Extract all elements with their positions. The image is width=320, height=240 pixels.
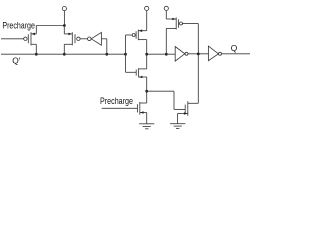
wire P4 drain down to node X [165,28,167,54]
node U1 input on Q' [105,53,108,56]
node supply rail junction [63,24,66,27]
wire supply down to P2 source [63,26,65,34]
wire P2 drain down to Q' [63,44,65,54]
transistor N1 source lead (bottom) [139,76,147,78]
transistor P4 (keeper PMOS) source lead (top) [166,18,176,20]
svg-text:Q: Q [231,43,238,53]
transistor N2 channel bar [139,102,141,115]
transistor N1 channel bar [138,68,140,77]
svg-text:Q′: Q′ [12,56,21,66]
wire supply B stem to P3 [146,11,148,31]
inverter U3 output bubble [219,52,222,55]
wire supply C stem [165,11,167,20]
power supply terminal C [164,6,168,10]
node Y [197,53,200,56]
svg-text:Precharge: Precharge [2,21,35,31]
transistor N2 source arrow [140,111,143,114]
transistor P1 channel bar [30,32,32,45]
transistor P2 gate bar [74,34,76,43]
node P4 drain on X [165,53,168,56]
inverter U1 triangle [91,32,101,45]
wire P1 drain down to Q' [35,44,37,54]
wire supply rail [36,25,64,27]
inverter U1 (left-facing) output bubble [88,37,92,41]
wire N2 drain up to node M [146,91,148,103]
transistor P4 source arrow [172,18,176,21]
transistor N2 source lead (bottom) [140,112,147,114]
wire Precharge input to P1 gate [1,38,24,40]
transistor N3 channel bar [187,101,189,116]
wire Precharge to N2 gate [102,107,138,109]
transistor P2 (keeper PMOS) source lead (top) [64,33,72,35]
wire P3 gate horizontal [126,34,133,36]
wire node M to N3 gate [147,90,174,92]
wire P2 gate to inverter output [80,38,87,40]
wire Q' horizontal line [1,53,126,55]
wire U1 input down to Q' [106,39,108,54]
wire P1 source up to rail [35,26,37,34]
transistor P3 channel bar [137,30,139,41]
inverter U2 triangle [175,47,185,62]
ground (under N3) [170,123,185,125]
transistor P3 source lead (top) [138,30,146,32]
wire Q' up to P3 gate [125,35,127,54]
power supply terminal B [145,6,149,10]
transistor P1 gate bar [27,34,29,43]
transistor P1 (precharge PMOS) gate bubble [24,37,27,40]
transistor N3 source arrow [184,112,188,115]
inverter U2 output bubble [185,52,188,55]
wire N3 source down to ground [177,114,179,124]
transistor N3 drain lead (top) [188,102,199,104]
transistor P4 drain lead (bottom) [166,27,176,29]
transistor P2 channel bar [71,32,73,45]
inverter U3 triangle [208,46,218,61]
transistor P4 gate bar [178,19,180,27]
transistor P4 channel bar [175,17,177,29]
wire Q output [222,53,251,55]
svg-text:Precharge: Precharge [100,96,133,106]
wire P3 drain down to node X [146,40,148,55]
wire N3 drain up to node Y [197,54,199,103]
node X left junction [145,53,148,56]
transistor P1 source arrow [32,33,36,36]
transistor P2 source arrow [68,33,72,36]
wire N1 drain up to node X [146,54,148,69]
transistor N2 drain lead (top) [140,102,147,104]
transistor P3 drain lead (bottom) [138,39,146,41]
wire node Y horizontal [188,53,208,55]
wire U1 input [101,38,106,40]
ground (under N2) [139,123,154,125]
transistor N3 gate bar [184,105,186,114]
transistor N1 drain lead (top) [139,68,147,70]
node P2 drain on Q' [63,53,66,56]
transistor N2 gate bar [136,104,138,112]
transistor P3 gate bubble [132,34,135,37]
wire P4 gate to node Y [183,23,199,25]
transistor N3 source lead (bottom, to left) [178,113,188,115]
wire N1 gate horizontal [126,71,137,73]
transistor P3 gate bar [135,31,137,39]
wire N1 source down to node M [146,77,148,91]
transistor P1 source lead (top) [31,33,36,35]
node P1 drain on Q' [35,53,38,56]
power supply terminal A [62,7,66,11]
node M [145,90,148,93]
transistor P2 gate bubble [77,37,80,40]
transistor P2 drain lead (bottom) [64,43,72,45]
transistor N1 source arrow [139,76,142,79]
wire N2 source down to ground [146,113,148,124]
node Q' gate tap [124,53,127,56]
transistor P4 gate bubble [180,22,183,25]
transistor P1 drain lead (bottom) [31,43,36,45]
transistor P3 source arrow [139,29,142,32]
wire supply A stem [63,11,65,26]
wire node X horizontal [147,53,176,55]
transistor N1 gate bar [135,70,137,76]
wire Q' down to N1 gate [125,54,127,72]
